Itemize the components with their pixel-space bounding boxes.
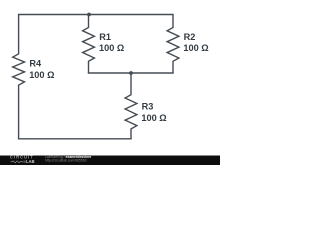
watermark credit line 2 xyxy=(45,159,87,163)
junction node top (R1 / top rail) xyxy=(87,13,91,17)
svg-text:R3: R3 xyxy=(142,102,154,112)
svg-text:R2: R2 xyxy=(184,32,196,42)
svg-text:R1: R1 xyxy=(99,32,111,42)
wire bottom rail xyxy=(19,138,131,140)
svg-text:http://circuitlab.com/965563: http://circuitlab.com/965563 xyxy=(45,159,87,163)
CircuitLab logo CIRCUIT xyxy=(10,155,34,160)
R1 label xyxy=(99,32,124,53)
watermark credit line 1 xyxy=(45,155,92,159)
R2 label xyxy=(183,32,208,53)
CircuitLab logo zigzag + LAB xyxy=(11,159,35,164)
junction node middle (R3 / middle rail) xyxy=(129,71,133,75)
svg-text:100 Ω: 100 Ω xyxy=(99,43,124,53)
R4 label xyxy=(29,59,54,80)
resistor R2 xyxy=(167,15,179,74)
svg-text:R4: R4 xyxy=(29,59,42,69)
svg-text:100 Ω: 100 Ω xyxy=(141,113,166,123)
R3 label xyxy=(141,102,166,123)
wire middle rail xyxy=(89,72,174,74)
svg-text:100 Ω: 100 Ω xyxy=(183,43,208,53)
svg-text:100 Ω: 100 Ω xyxy=(29,70,54,80)
wire top rail xyxy=(19,14,173,16)
resistor R4 xyxy=(13,15,25,139)
resistor R3 xyxy=(125,73,137,139)
svg-text:LAB: LAB xyxy=(26,159,35,164)
resistor R1 xyxy=(83,15,95,74)
CircuitLab watermark bar xyxy=(0,156,220,166)
